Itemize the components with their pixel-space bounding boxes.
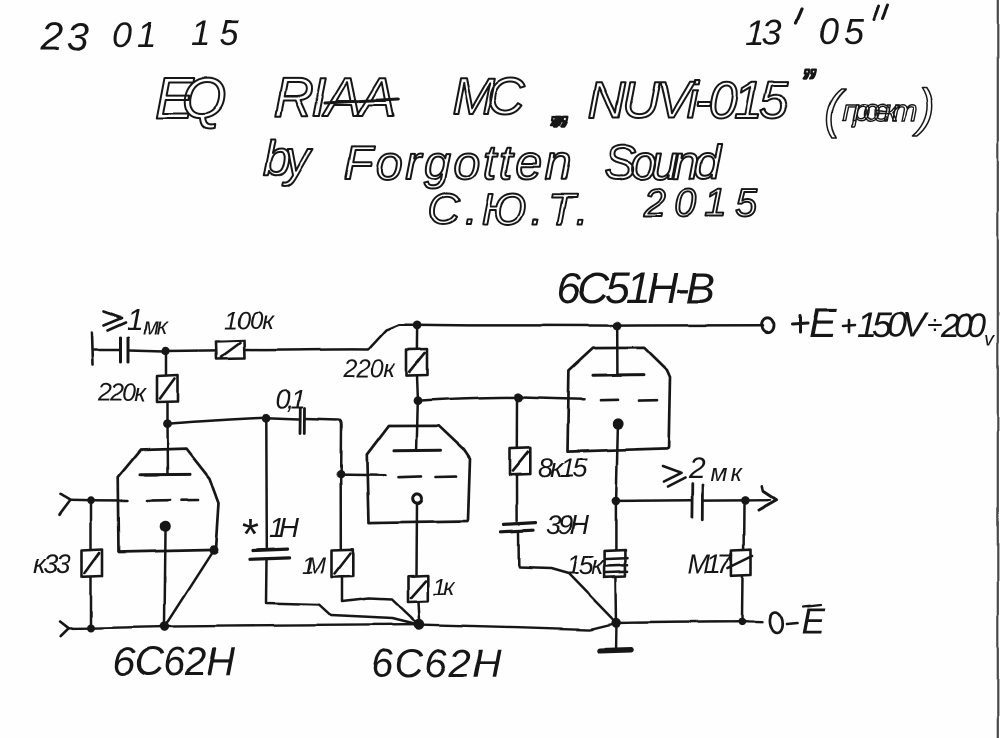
capacitor C5 2uF plates <box>692 484 703 520</box>
svg-text:6С62Н: 6С62Н <box>371 642 501 686</box>
svg-text:150V: 150V <box>857 304 929 345</box>
right edge scan line <box>997 0 999 738</box>
svg-text:15: 15 <box>191 14 240 53</box>
wire node D to node E <box>167 418 266 424</box>
svg-text:by: by <box>263 131 313 187</box>
+E terminal circle <box>763 318 775 332</box>
svg-text:1Н: 1Н <box>269 512 300 543</box>
V2 grid lead <box>341 473 385 476</box>
B+ power rail <box>399 323 764 326</box>
node C junction dot on rail above V3 <box>613 322 622 331</box>
node A junction dot <box>161 347 169 355</box>
wire node F down to R4 <box>339 474 342 549</box>
capacitor C3 bottom plate <box>250 557 289 558</box>
svg-text:NUVi-015: NUVi-015 <box>588 72 789 130</box>
svg-text:Forgotten: Forgotten <box>344 137 571 190</box>
wire R4 to ground squiggle <box>342 577 418 623</box>
strike line through RIAA <box>325 99 398 103</box>
resistor R8 15k body <box>605 550 628 577</box>
svg-text:мк: мк <box>711 460 744 487</box>
wire node A down to R1 <box>165 355 168 375</box>
V3 anode lead from rail <box>616 328 619 375</box>
wire node G to V1 grid <box>91 499 128 502</box>
V1 anode bar <box>141 473 191 476</box>
capacitor C4 bottom plate <box>501 530 533 532</box>
svg-text:”: ” <box>549 109 563 150</box>
svg-text:MC: MC <box>452 68 525 126</box>
node L junction dot <box>514 393 523 402</box>
V3 cathode wire down <box>616 429 618 497</box>
svg-text:220к: 220к <box>97 379 147 407</box>
wire C3 to ground squiggle <box>266 559 415 624</box>
wire node K down to V2 plate <box>417 401 418 450</box>
time text 13' 05'' <box>745 5 888 53</box>
wire node K to node L <box>418 397 519 400</box>
label +E +150V/200v <box>793 299 995 351</box>
svg-text:М17: М17 <box>688 549 733 579</box>
svg-text:проект: проект <box>842 93 918 128</box>
wire node B down to R6 <box>416 328 419 349</box>
node P junction dot <box>738 618 746 626</box>
svg-text:23: 23 <box>40 16 88 59</box>
wire R5 to ground node <box>419 602 420 620</box>
svg-text:EQ: EQ <box>155 66 233 131</box>
label -E dash <box>787 623 798 624</box>
capacitor C1 >=1uF plates <box>121 338 129 362</box>
wire C2 to V2 grid corner <box>305 419 341 472</box>
resistor R5 1k body <box>408 576 428 603</box>
svg-text:1: 1 <box>127 304 144 337</box>
svg-text:13: 13 <box>745 12 782 53</box>
title line 2: by Forgotten Sound <box>263 109 722 190</box>
V3 grid dash 1 <box>601 398 618 401</box>
V2 anode bar <box>394 449 441 453</box>
V3 cathode dot <box>613 418 624 429</box>
wire node L to V3 grid <box>519 397 585 399</box>
wire R1 to node D <box>166 402 169 421</box>
node N ground junction dot <box>611 618 621 628</box>
ground symbol bar <box>601 650 631 651</box>
svg-text:39Н: 39Н <box>546 510 590 540</box>
V2 cathode wire to R5 <box>415 504 418 576</box>
triode V1 envelope <box>118 449 219 552</box>
node F junction dot at V2 grid <box>337 470 345 478</box>
V1 grid dash 2 <box>182 499 198 502</box>
svg-text:2: 2 <box>688 452 706 485</box>
wire node D down into V1 plate <box>166 424 169 474</box>
node H junction dot ground left <box>87 624 95 632</box>
svg-text:”: ” <box>801 62 816 106</box>
svg-text:01: 01 <box>112 16 156 55</box>
0-E terminal circle <box>768 612 783 634</box>
V3 anode bar <box>593 373 643 377</box>
wire R2 to B+ rail riser <box>245 325 400 350</box>
svg-text:100к: 100к <box>224 307 275 335</box>
V2 grid dash 1 <box>398 475 421 478</box>
wire node E down to C3 <box>265 421 268 547</box>
triode V2 envelope <box>367 426 470 523</box>
capacitor C3 1N top plate <box>253 549 287 550</box>
wire C1 to node A <box>130 350 164 351</box>
svg-text:*: * <box>240 510 259 559</box>
wire tick to C1 <box>93 349 120 352</box>
label >=2mk symbol <box>663 466 686 487</box>
V3 grid dash 2 <box>639 399 657 402</box>
node G junction dot <box>87 497 95 505</box>
V2 cathode ring <box>412 494 421 503</box>
resistor R3 k33 body <box>82 550 103 577</box>
svg-text:8к15: 8к15 <box>538 453 588 483</box>
output arrow wire <box>745 499 770 502</box>
wire V1 corner diagonal to ground node <box>165 550 214 627</box>
svg-text:С.Ю.Т.: С.Ю.Т. <box>428 185 588 234</box>
svg-text:мк: мк <box>143 313 168 339</box>
svg-text:0,1: 0,1 <box>276 384 306 414</box>
node O junction dot <box>741 496 750 505</box>
svg-text:6С62Н: 6С62Н <box>113 640 235 684</box>
svg-text:15к: 15к <box>566 550 605 580</box>
label >=1mk symbol <box>104 312 126 331</box>
wire R9 to ground rail <box>741 576 744 618</box>
title line 3: S.Yu.T. 2015 <box>428 182 757 234</box>
V1 grid dash 1 <box>147 499 170 502</box>
svg-text:220к: 220к <box>342 355 396 383</box>
triode V3 envelope <box>567 348 670 452</box>
label 2mk text <box>688 452 744 487</box>
resistor R6 220k body <box>407 349 428 376</box>
V1 cathode dot <box>160 521 171 532</box>
wire node M down to R8 <box>615 501 618 550</box>
svg-text:200: 200 <box>940 307 986 345</box>
node K junction dot <box>414 396 423 405</box>
V1 cathode wire to ground rail <box>164 532 165 623</box>
wire input arrow to node G <box>71 499 89 502</box>
resistor R4 1M body <box>332 549 353 576</box>
wire node L down to R7 <box>516 401 519 448</box>
wire node G down to R3 <box>90 504 93 550</box>
svg-text:к33: к33 <box>33 549 71 579</box>
wire R8 to ground node N <box>615 577 618 619</box>
V2 grid dash 2 <box>436 475 456 478</box>
resistor R7 8k15 body <box>510 448 531 475</box>
svg-text:RIAA: RIAA <box>274 66 396 128</box>
capacitor C2 0,1 plates <box>301 408 306 433</box>
svg-text:v: v <box>984 329 995 351</box>
ground rail arrow terminal <box>60 622 69 637</box>
capacitor C4 39N top plate <box>504 523 536 525</box>
wire node A to R2 <box>166 349 217 352</box>
ground stub <box>615 627 618 648</box>
wire C4 to ground diagonal <box>519 533 617 623</box>
label 1mk text <box>127 304 168 339</box>
wire node O down to R9 <box>742 505 745 550</box>
resistor R1 220k body <box>157 375 178 402</box>
wire node M to C5 <box>616 499 692 502</box>
resistor R2 100k body <box>216 341 245 360</box>
svg-text:1М: 1М <box>302 552 327 578</box>
date text 23 01 15 <box>40 14 240 59</box>
wire C5 to node O <box>704 499 741 502</box>
title line 1: EQ RIAA MC "NUVI-015" (proekt) <box>155 66 396 131</box>
ground bus rail <box>69 622 762 630</box>
svg-text:6С51Н-В: 6С51Н-В <box>556 264 715 313</box>
wire R7 to C4 <box>515 475 518 521</box>
wire R3 to ground rail <box>90 577 93 625</box>
node D junction dot <box>163 419 172 428</box>
node I junction dot V1 cathode ground <box>160 622 170 632</box>
svg-text:E: E <box>809 299 838 346</box>
wire node E to C2 <box>266 418 299 419</box>
node J big ground junction dot <box>414 619 425 630</box>
node E junction dot <box>262 413 271 422</box>
node M junction dot at cathode output <box>612 497 621 506</box>
input arrow terminal <box>60 494 71 515</box>
resistor R9 M17 body <box>728 550 753 576</box>
svg-text:05: 05 <box>819 11 865 52</box>
node B junction dot on rail <box>413 321 422 330</box>
V1 envelope corner junction dot <box>209 545 219 555</box>
wire R6 to node K <box>416 376 419 397</box>
svg-text:1к: 1к <box>433 574 457 601</box>
output arrowhead <box>759 487 777 511</box>
input terminal tick <box>92 333 93 365</box>
